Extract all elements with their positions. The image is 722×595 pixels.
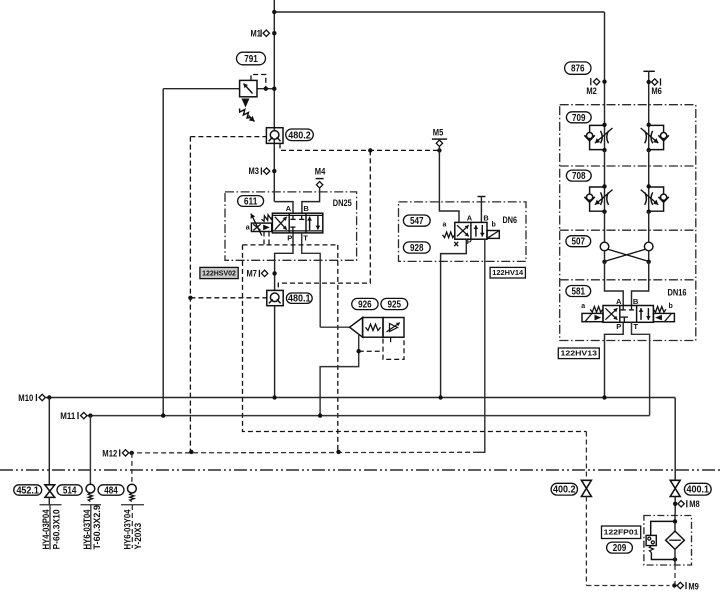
svg-text:709: 709 <box>572 113 586 124</box>
svg-text:M4: M4 <box>315 166 326 176</box>
svg-text:a: a <box>443 222 447 229</box>
svg-text:480.2: 480.2 <box>288 130 311 141</box>
svg-text:DN16: DN16 <box>668 287 687 298</box>
svg-text:P: P <box>467 237 472 246</box>
svg-text:HY6-03Y04: HY6-03Y04 <box>123 509 133 549</box>
svg-text:507: 507 <box>572 237 586 248</box>
svg-text:Y-20X3: Y-20X3 <box>133 523 143 550</box>
svg-text:A: A <box>616 297 622 306</box>
svg-text:928: 928 <box>410 243 424 254</box>
svg-text:122HV14: 122HV14 <box>492 270 523 277</box>
svg-text:452.1: 452.1 <box>16 486 39 497</box>
svg-text:B: B <box>303 204 309 213</box>
svg-text:B: B <box>483 213 488 222</box>
svg-text:400.1: 400.1 <box>687 485 710 496</box>
svg-text:M12: M12 <box>102 449 117 459</box>
svg-text:925: 925 <box>388 300 402 311</box>
svg-text:611: 611 <box>244 197 258 208</box>
svg-text:DN25: DN25 <box>333 198 353 209</box>
svg-text:B: B <box>633 297 639 306</box>
svg-text:M9: M9 <box>688 582 699 592</box>
svg-text:M11: M11 <box>60 411 75 421</box>
svg-text:M7: M7 <box>247 268 257 278</box>
svg-text:M8: M8 <box>689 499 700 509</box>
svg-text:A: A <box>467 213 473 222</box>
svg-text:514: 514 <box>63 486 77 497</box>
svg-text:708: 708 <box>572 171 586 182</box>
svg-text:480.1: 480.1 <box>288 294 311 305</box>
svg-text:581: 581 <box>572 287 586 298</box>
svg-text:M5: M5 <box>433 127 444 137</box>
svg-text:M10: M10 <box>18 393 33 403</box>
svg-text:HY4-03P04: HY4-03P04 <box>41 509 51 549</box>
svg-text:T-60.3X2.9: T-60.3X2.9 <box>92 505 102 550</box>
svg-text:T: T <box>633 322 638 331</box>
svg-text:a: a <box>581 303 585 310</box>
svg-text:926: 926 <box>358 300 372 311</box>
svg-text:HY6-03T04: HY6-03T04 <box>82 509 92 549</box>
svg-text:122HV13: 122HV13 <box>561 351 598 358</box>
svg-text:791: 791 <box>244 54 258 65</box>
svg-text:b: b <box>492 222 496 229</box>
svg-text:DN6: DN6 <box>503 215 518 226</box>
svg-text:122HSV02: 122HSV02 <box>202 270 236 277</box>
svg-text:M6: M6 <box>651 86 662 96</box>
svg-text:M2: M2 <box>586 86 597 96</box>
svg-text:b: b <box>669 303 673 310</box>
svg-text:P: P <box>616 322 621 331</box>
svg-text:209: 209 <box>613 543 627 554</box>
svg-text:484: 484 <box>104 486 118 497</box>
svg-text:876: 876 <box>571 64 585 75</box>
svg-text:A: A <box>286 204 292 213</box>
svg-text:547: 547 <box>410 216 424 227</box>
svg-text:122FP01: 122FP01 <box>604 528 639 537</box>
svg-text:P: P <box>287 233 292 242</box>
svg-text:P-60.3X10: P-60.3X10 <box>51 509 61 549</box>
svg-text:M1: M1 <box>251 29 261 39</box>
svg-text:M3: M3 <box>249 166 259 176</box>
svg-text:400.2: 400.2 <box>553 485 576 496</box>
svg-text:T: T <box>303 233 308 242</box>
